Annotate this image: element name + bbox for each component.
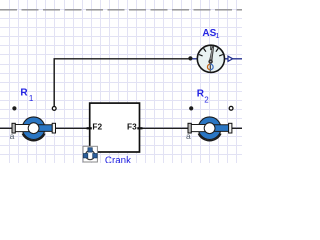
needle xyxy=(209,46,214,62)
svg-text:F2: F2 xyxy=(92,122,102,132)
node dot R1 left xyxy=(12,106,16,110)
resistor R2 (revolute joint body) xyxy=(188,117,232,141)
node dot R2 left xyxy=(189,106,193,110)
hub xyxy=(208,59,212,63)
svg-text:F3: F3 xyxy=(127,122,137,132)
svg-text:R: R xyxy=(20,88,28,99)
node circle R1 right (open connector) xyxy=(52,107,56,111)
wire xyxy=(140,127,189,129)
wire signal output xyxy=(191,58,242,60)
node circle R2 right (open connector) xyxy=(229,106,233,110)
crank box U1 xyxy=(90,103,140,152)
svg-text:1: 1 xyxy=(29,94,34,103)
svg-text:2: 2 xyxy=(204,95,209,104)
svg-text:a: a xyxy=(10,131,15,141)
svg-text:1: 1 xyxy=(215,31,219,40)
resistor R1 (revolute joint body) xyxy=(12,117,56,141)
signal output triangle xyxy=(228,56,233,61)
ticks xyxy=(199,46,223,56)
wire xyxy=(0,127,13,129)
phi symbol xyxy=(209,62,211,71)
wire sensor connection xyxy=(54,59,190,107)
svg-text:Crank: Crank xyxy=(105,156,131,163)
svg-text:a: a xyxy=(186,131,191,141)
node dot AS1 input xyxy=(188,56,192,60)
wire xyxy=(55,127,90,129)
wire xyxy=(232,127,243,129)
pin F2 tick xyxy=(87,127,92,129)
angle sensor AS1 (gauge) xyxy=(197,45,224,72)
pin F3 tick xyxy=(137,127,142,129)
submodel icon xyxy=(83,146,97,162)
